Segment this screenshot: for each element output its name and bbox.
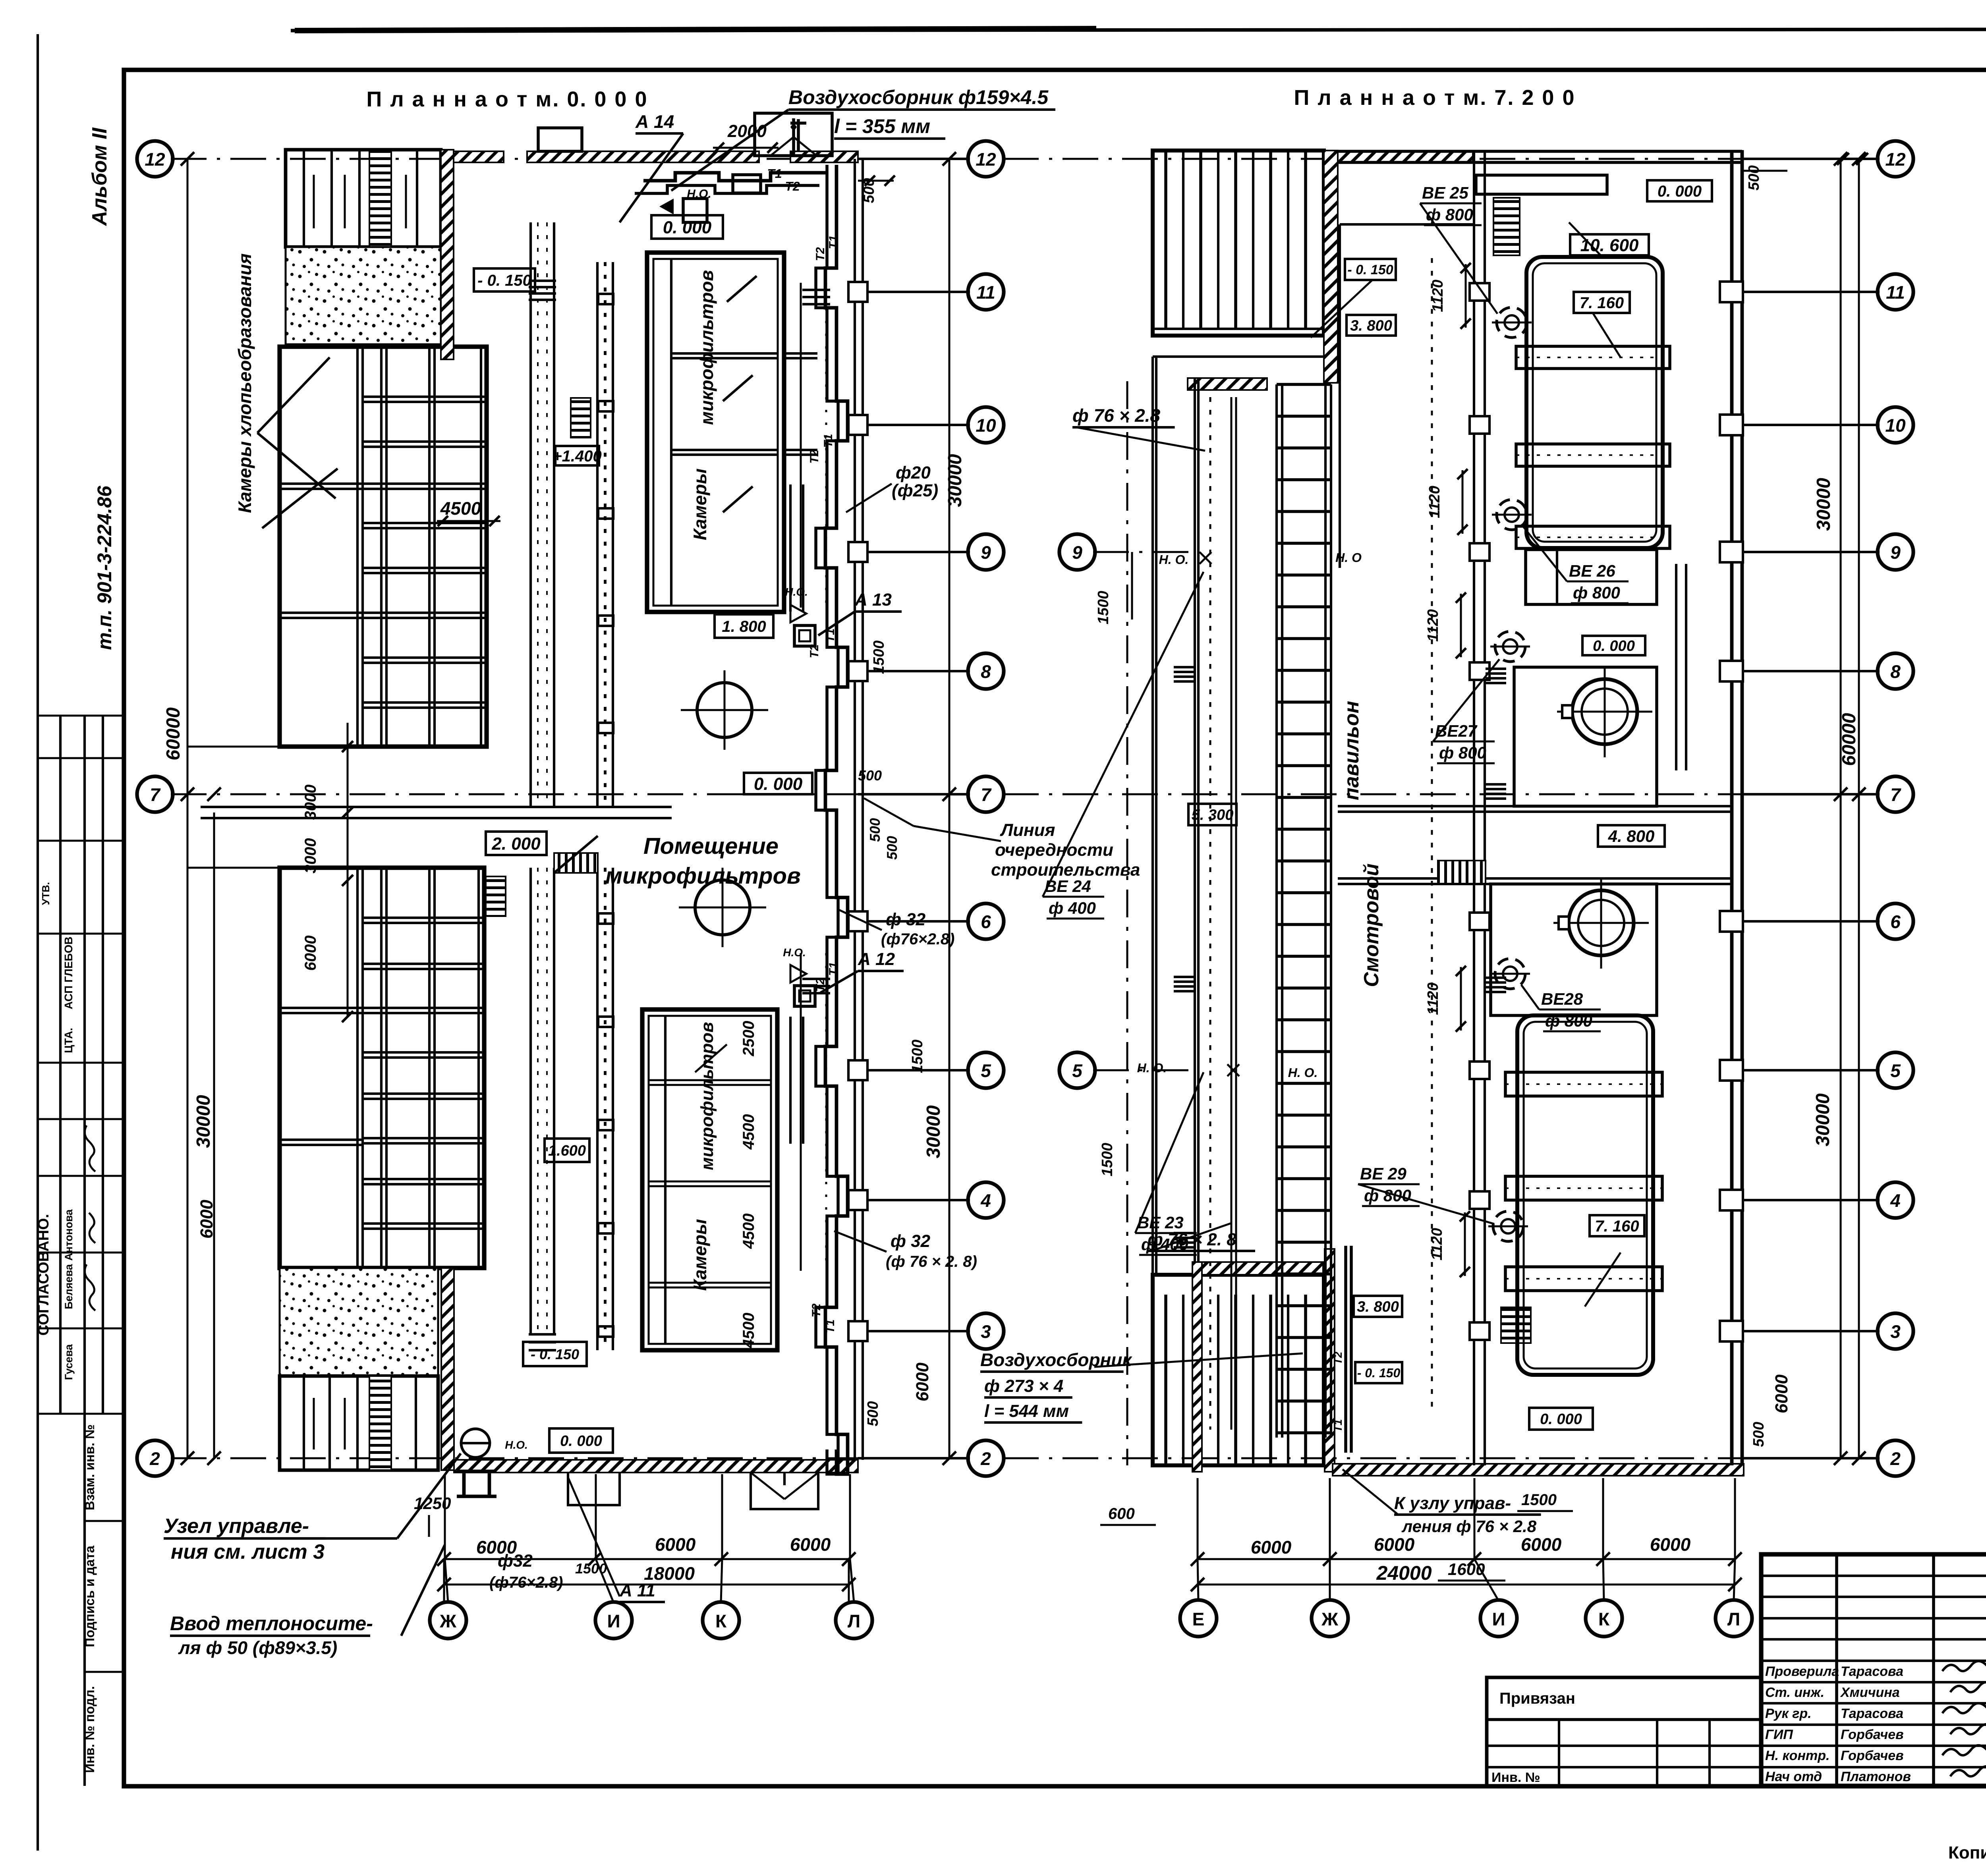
svg-text:Узел управле-: Узел управле- (164, 1515, 309, 1538)
svg-text:4500: 4500 (740, 1114, 757, 1150)
svg-text:+1.400: +1.400 (553, 448, 601, 465)
svg-text:ф20: ф20 (896, 463, 931, 483)
svg-text:10. 600: 10. 600 (1580, 235, 1639, 255)
svg-text:микрофильтров: микрофильтров (605, 863, 801, 889)
svg-text:0. 000: 0. 000 (1593, 638, 1635, 654)
svg-text:5. 300: 5. 300 (1192, 807, 1234, 824)
svg-text:ф32: ф32 (498, 1551, 533, 1571)
svg-text:А 11: А 11 (619, 1581, 655, 1600)
svg-text:500: 500 (1750, 1422, 1767, 1447)
svg-text:ф 32: ф 32 (891, 1231, 931, 1251)
svg-text:1500: 1500 (1099, 1143, 1116, 1177)
svg-text:Т1: Т1 (827, 235, 840, 249)
svg-text:4: 4 (980, 1190, 991, 1211)
svg-text:1120: 1120 (1430, 280, 1446, 312)
svg-text:УТВ.: УТВ. (40, 882, 52, 905)
svg-text:1500: 1500 (1095, 591, 1112, 625)
svg-text:500: 500 (858, 767, 882, 784)
svg-text:8: 8 (981, 661, 991, 682)
svg-text:(ф 76 × 2. 8): (ф 76 × 2. 8) (886, 1253, 977, 1270)
svg-text:7: 7 (981, 784, 992, 805)
svg-text:Рук гр.: Рук гр. (1765, 1706, 1812, 1721)
svg-text:ф 32: ф 32 (886, 910, 926, 929)
svg-text:К: К (1598, 1609, 1610, 1629)
svg-text:ф 273 × 4: ф 273 × 4 (984, 1376, 1063, 1396)
svg-text:5: 5 (1890, 1060, 1901, 1081)
svg-text:Т1: Т1 (824, 1319, 837, 1333)
svg-text:6000: 6000 (1650, 1534, 1691, 1555)
svg-text:9: 9 (1890, 542, 1901, 563)
svg-text:- 0. 150: - 0. 150 (1357, 1366, 1401, 1380)
svg-text:павильон: павильон (1340, 701, 1363, 800)
svg-text:Ввод теплоносите-: Ввод теплоносите- (170, 1612, 373, 1635)
svg-text:Камеры: Камеры (690, 1219, 710, 1291)
svg-text:ф 76 × 2. 8: ф 76 × 2. 8 (1148, 1230, 1236, 1249)
svg-text:И: И (607, 1611, 620, 1631)
svg-text:1500: 1500 (575, 1560, 607, 1577)
svg-text:Н.О.: Н.О. (505, 1439, 528, 1451)
svg-text:1. 800: 1. 800 (722, 618, 766, 635)
svg-text:Помещение: Помещение (643, 833, 779, 859)
svg-text:Воздухосборник: Воздухосборник (980, 1349, 1132, 1370)
svg-text:6: 6 (1890, 911, 1901, 932)
svg-text:Т2: Т2 (1332, 1351, 1344, 1365)
svg-text:ф 800: ф 800 (1439, 743, 1486, 762)
svg-text:500: 500 (865, 1401, 881, 1426)
svg-text:Т1: Т1 (767, 166, 782, 181)
svg-text:Горбачев: Горбачев (1841, 1727, 1904, 1742)
svg-text:6000: 6000 (1374, 1534, 1415, 1555)
svg-text:Ст. инж.: Ст. инж. (1765, 1685, 1824, 1700)
svg-text:(ф76×2.8): (ф76×2.8) (489, 1574, 563, 1591)
svg-text:60000: 60000 (1839, 713, 1860, 766)
svg-text:А 13: А 13 (854, 590, 892, 610)
svg-text:30000: 30000 (1813, 478, 1834, 531)
svg-text:4. 800: 4. 800 (1608, 827, 1655, 845)
svg-text:Т1: Т1 (1332, 1419, 1344, 1432)
svg-text:5: 5 (981, 1060, 991, 1081)
svg-text:Камеры: Камеры (690, 469, 710, 540)
svg-text:11: 11 (1886, 282, 1905, 303)
svg-text:ф 800: ф 800 (1573, 583, 1620, 602)
svg-text:Т2: Т2 (810, 1303, 823, 1317)
svg-text:Н. О: Н. О (1335, 550, 1362, 565)
svg-text:ВЕ 29: ВЕ 29 (1360, 1164, 1406, 1183)
svg-text:П л а н н а о т м. 7.: П л а н н а о т м. 7. 2 0 0 (1294, 86, 1576, 110)
svg-text:П л а н н а о т м. 0.: П л а н н а о т м. 0. 0 0 0 (367, 87, 648, 111)
svg-text:30000: 30000 (923, 1105, 944, 1158)
svg-text:А 12: А 12 (858, 950, 895, 969)
svg-text:1120: 1120 (1425, 609, 1441, 642)
svg-text:30000: 30000 (1812, 1093, 1833, 1146)
svg-text:12: 12 (1885, 149, 1906, 170)
svg-text:(ф25): (ф25) (892, 481, 938, 500)
svg-text:Камеры хлопьеобразования: Камеры хлопьеобразования (234, 253, 255, 513)
svg-text:24000: 24000 (1376, 1562, 1432, 1584)
svg-text:1500: 1500 (1521, 1491, 1557, 1509)
svg-text:1600: 1600 (1448, 1560, 1485, 1579)
svg-text:3. 800: 3. 800 (1357, 1299, 1399, 1315)
svg-text:Воздухосборник ф159×4.5: Воздухосборник ф159×4.5 (788, 86, 1049, 108)
svg-text:Взам. инв. №: Взам. инв. № (82, 1424, 97, 1511)
svg-text:Хмичина: Хмичина (1840, 1685, 1900, 1700)
svg-text:Л: Л (1727, 1609, 1740, 1629)
svg-text:Т1: Т1 (822, 434, 835, 448)
svg-text:500: 500 (867, 818, 883, 842)
svg-text:500: 500 (884, 836, 900, 860)
svg-text:30000: 30000 (945, 454, 966, 507)
svg-text:Инв. № подл.: Инв. № подл. (82, 1686, 97, 1773)
svg-text:7: 7 (1890, 784, 1901, 805)
svg-text:ВЕ 25: ВЕ 25 (1422, 183, 1468, 202)
svg-text:Инв. №: Инв. № (1491, 1770, 1540, 1785)
svg-text:Гусева: Гусева (63, 1344, 75, 1380)
svg-text:ф 400: ф 400 (1049, 899, 1096, 917)
svg-text:0. 000: 0. 000 (560, 1433, 602, 1449)
svg-text:60000: 60000 (163, 707, 184, 760)
svg-text:0. 000: 0. 000 (754, 774, 803, 794)
svg-text:Н.О.: Н.О. (783, 946, 806, 959)
svg-text:3: 3 (1890, 1321, 1901, 1342)
svg-text:Нач отд: Нач отд (1765, 1769, 1822, 1784)
svg-text:6000: 6000 (655, 1534, 696, 1555)
svg-text:Н. О.: Н. О. (1159, 552, 1189, 567)
svg-text:7: 7 (150, 784, 161, 805)
svg-text:9: 9 (981, 542, 991, 563)
svg-text:микрофильтров: микрофильтров (697, 1022, 717, 1170)
svg-text:1120: 1120 (1429, 1228, 1445, 1260)
svg-text:ЦТА.: ЦТА. (62, 1028, 75, 1053)
svg-text:1500: 1500 (909, 1040, 926, 1073)
svg-text:строительства: строительства (991, 860, 1140, 880)
svg-text:ВЕ28: ВЕ28 (1541, 990, 1583, 1008)
svg-text:- 0. 150: - 0. 150 (531, 1346, 579, 1362)
svg-text:6000: 6000 (790, 1534, 831, 1555)
svg-text:- 0. 150: - 0. 150 (1347, 262, 1393, 278)
svg-text:Альбом II: Альбом II (88, 127, 111, 226)
svg-text:Л: Л (848, 1611, 860, 1631)
svg-text:0. 000: 0. 000 (1540, 1411, 1582, 1428)
svg-text:Н. О.: Н. О. (1137, 1061, 1167, 1075)
svg-text:Ж: Ж (439, 1611, 456, 1631)
svg-text:4: 4 (1890, 1190, 1901, 1211)
svg-text:АСП ГЛЕБОВ: АСП ГЛЕБОВ (62, 936, 75, 1009)
svg-text:1.600: 1.600 (548, 1143, 586, 1159)
svg-text:6: 6 (981, 911, 991, 932)
svg-text:К узлу управ-: К узлу управ- (1394, 1494, 1511, 1513)
svg-text:ВЕ 26: ВЕ 26 (1569, 562, 1615, 580)
svg-text:2. 000: 2. 000 (491, 834, 541, 853)
svg-text:8: 8 (1890, 661, 1901, 682)
svg-text:4500: 4500 (440, 498, 481, 519)
svg-text:7. 160: 7. 160 (1580, 294, 1624, 312)
svg-text:9: 9 (1072, 542, 1082, 563)
svg-text:Т2: Т2 (785, 179, 800, 193)
svg-text:600: 600 (1108, 1505, 1135, 1523)
svg-text:11: 11 (976, 282, 995, 303)
svg-text:5: 5 (1072, 1060, 1083, 1081)
svg-text:К: К (715, 1611, 727, 1631)
svg-text:микрофильтров: микрофильтров (696, 270, 717, 425)
svg-text:ф 800: ф 800 (1545, 1011, 1592, 1030)
svg-text:ления ф 76 × 2.8: ления ф 76 × 2.8 (1401, 1517, 1537, 1536)
svg-text:Беляева: Беляева (63, 1264, 75, 1309)
svg-text:Н.О.: Н.О. (687, 187, 711, 201)
svg-text:Смотровой: Смотровой (1360, 863, 1383, 987)
svg-text:Копировал: Копировал (1948, 1843, 1986, 1862)
svg-text:3: 3 (981, 1321, 991, 1342)
svg-text:4500: 4500 (740, 1313, 757, 1349)
svg-text:2: 2 (980, 1448, 991, 1469)
svg-text:А 14: А 14 (635, 111, 674, 132)
svg-text:12: 12 (976, 149, 996, 170)
svg-text:Антонова: Антонова (63, 1209, 75, 1260)
svg-text:0. 000: 0. 000 (663, 218, 712, 237)
svg-text:Т1: Т1 (827, 962, 840, 976)
svg-text:Н.О.: Н.О. (785, 586, 808, 598)
svg-text:очередности: очередности (995, 840, 1113, 860)
svg-text:2500: 2500 (740, 1021, 757, 1057)
svg-text:2: 2 (1890, 1448, 1901, 1469)
svg-text:СОГЛАСОВАНО.: СОГЛАСОВАНО. (35, 1214, 52, 1336)
svg-text:6000: 6000 (913, 1363, 932, 1401)
svg-text:Проверила: Проверила (1765, 1664, 1839, 1679)
svg-text:Горбачев: Горбачев (1841, 1748, 1904, 1763)
svg-text:ния см. лист 3: ния см. лист 3 (171, 1540, 325, 1563)
svg-text:Платонов: Платонов (1841, 1769, 1911, 1784)
svg-text:12: 12 (145, 149, 165, 170)
svg-text:(ф76×2.8): (ф76×2.8) (881, 930, 955, 948)
svg-text:0. 000: 0. 000 (1658, 183, 1702, 200)
svg-text:6000: 6000 (1251, 1537, 1292, 1558)
svg-text:7. 160: 7. 160 (1595, 1218, 1639, 1235)
svg-text:Ж: Ж (1321, 1609, 1338, 1629)
svg-text:3000: 3000 (302, 838, 319, 874)
svg-text:И: И (1492, 1609, 1505, 1629)
svg-text:4500: 4500 (740, 1214, 757, 1249)
svg-text:Тарасова: Тарасова (1841, 1664, 1903, 1679)
svg-text:т.п. 901-3-224.86: т.п. 901-3-224.86 (93, 485, 116, 650)
svg-text:ВЕ 23: ВЕ 23 (1137, 1213, 1184, 1232)
svg-text:Тарасова: Тарасова (1841, 1706, 1903, 1721)
svg-text:10: 10 (1885, 415, 1906, 436)
svg-text:Т2: Т2 (814, 247, 827, 261)
svg-text:6000: 6000 (302, 936, 319, 971)
svg-text:30000: 30000 (193, 1095, 214, 1148)
svg-text:Е: Е (1192, 1609, 1205, 1629)
svg-text:ля ф 50 (ф89×3.5): ля ф 50 (ф89×3.5) (178, 1637, 337, 1658)
svg-text:ф 76 × 2.8: ф 76 × 2.8 (1072, 405, 1160, 426)
svg-text:500: 500 (1746, 165, 1762, 190)
svg-text:Подпись и дата: Подпись и дата (82, 1546, 97, 1647)
svg-text:l = 355 мм: l = 355 мм (834, 115, 930, 137)
svg-text:2: 2 (149, 1448, 160, 1469)
svg-text:1500: 1500 (871, 641, 887, 674)
svg-text:6000: 6000 (197, 1200, 216, 1239)
svg-text:6000: 6000 (1772, 1374, 1791, 1413)
svg-text:Т2: Т2 (808, 450, 821, 463)
svg-text:6000: 6000 (1521, 1534, 1562, 1555)
svg-text:1120: 1120 (1426, 486, 1443, 518)
svg-text:Н. О.: Н. О. (1288, 1065, 1318, 1080)
svg-text:3. 800: 3. 800 (1350, 318, 1392, 334)
svg-text:l = 544 мм: l = 544 мм (984, 1401, 1069, 1421)
svg-text:Н. контр.: Н. контр. (1765, 1748, 1830, 1763)
svg-text:Линия: Линия (1000, 820, 1055, 840)
svg-text:10: 10 (976, 415, 996, 436)
svg-text:1120: 1120 (1425, 982, 1441, 1015)
svg-text:3000: 3000 (302, 785, 319, 820)
svg-text:Привязан: Привязан (1499, 1690, 1575, 1707)
svg-text:- 0. 150: - 0. 150 (477, 272, 531, 289)
svg-text:ГИП: ГИП (1765, 1727, 1793, 1742)
